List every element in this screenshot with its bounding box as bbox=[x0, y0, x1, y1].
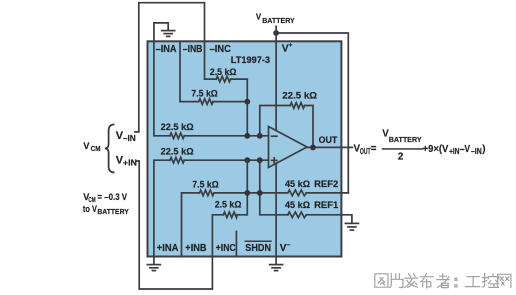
wire plus node to ref2 col1 bbox=[237, 160, 247, 215]
resistor 22.5k bottom bbox=[170, 157, 184, 163]
ground REF1 bbox=[345, 223, 358, 230]
pin -INC wire bbox=[205, 41, 217, 79]
ground top bbox=[162, 31, 175, 37]
junction dot ref2 row right bbox=[257, 190, 263, 196]
svg-text:–: – bbox=[287, 242, 291, 249]
junction dot ref2 row left bbox=[244, 190, 250, 196]
svg-text:2.5 kΩ: 2.5 kΩ bbox=[210, 67, 237, 78]
svg-text:LT1997-3: LT1997-3 bbox=[231, 54, 270, 65]
chip body LT1997-3 bbox=[148, 41, 342, 256]
svg-text:+IN: +IN bbox=[123, 159, 137, 168]
svg-text:22.5 kΩ: 22.5 kΩ bbox=[282, 91, 317, 102]
resistor 45k REF1 bbox=[288, 212, 307, 218]
svg-text:–IN: –IN bbox=[123, 134, 136, 143]
wire 7.5k top to node bbox=[213, 101, 247, 103]
junction dot OUT bbox=[310, 145, 316, 151]
node VBATTERY stub bbox=[275, 26, 277, 33]
svg-text:+IN: +IN bbox=[449, 147, 460, 156]
resistor 7.5k top bbox=[199, 99, 213, 105]
resistor 45k REF2 bbox=[288, 190, 307, 196]
svg-text:= –0.3 V: = –0.3 V bbox=[97, 192, 127, 202]
wire minus row bbox=[184, 135, 268, 137]
wire OUT bbox=[307, 146, 352, 148]
svg-text:7.5 kΩ: 7.5 kΩ bbox=[192, 180, 219, 191]
svg-text:BATTERY: BATTERY bbox=[389, 135, 422, 144]
junction dot 7.5k/2.5k bbox=[244, 99, 250, 105]
svg-text:BATTERY: BATTERY bbox=[262, 17, 295, 25]
pin +INB wire bbox=[182, 193, 200, 257]
svg-text:OUT: OUT bbox=[319, 135, 338, 145]
formula fraction bar bbox=[382, 148, 424, 150]
wire feedback left bbox=[260, 106, 290, 136]
op-amp minus sign bbox=[272, 135, 277, 137]
svg-text:–IN: –IN bbox=[471, 147, 482, 156]
svg-text:–INC: –INC bbox=[210, 44, 232, 55]
wire ref2 row bbox=[214, 192, 288, 194]
svg-text:SHDN: SHDN bbox=[245, 243, 271, 254]
junction dot VBATTERY bbox=[273, 30, 279, 36]
wire VBATTERY to outer right bbox=[276, 33, 348, 193]
wire V- supply to ground bbox=[275, 163, 277, 264]
svg-text:BATTERY: BATTERY bbox=[97, 209, 129, 216]
wire plus node to ref1 col2 bbox=[260, 160, 288, 215]
svg-text:22.5 kΩ: 22.5 kΩ bbox=[161, 122, 194, 133]
svg-text:+INB: +INB bbox=[185, 243, 206, 254]
junction dot minus row left bbox=[244, 133, 250, 139]
wire feedback right to OUT bbox=[305, 106, 313, 148]
svg-text:45 kΩ: 45 kΩ bbox=[285, 200, 310, 211]
svg-text:7.5 kΩ: 7.5 kΩ bbox=[191, 89, 218, 100]
resistor 22.5k top bbox=[170, 133, 184, 139]
wire 2.5k top to node bbox=[231, 79, 248, 136]
svg-text:REF1: REF1 bbox=[314, 200, 339, 211]
wire V-IN top loop bbox=[135, 3, 205, 132]
pin -INB wire bbox=[180, 41, 199, 101]
svg-text:2: 2 bbox=[398, 151, 404, 162]
junction dot minus row right bbox=[257, 133, 263, 139]
wire V+IN bottom loop bbox=[137, 161, 212, 289]
ground bottom center bbox=[270, 265, 283, 271]
wire REF2 exit bbox=[306, 192, 348, 194]
junction dot plus row right bbox=[257, 157, 263, 163]
svg-text:REF2: REF2 bbox=[314, 179, 338, 190]
svg-text:2.5 kΩ: 2.5 kΩ bbox=[215, 199, 242, 210]
svg-text:+INA: +INA bbox=[157, 243, 179, 254]
svg-text:+: + bbox=[289, 42, 293, 49]
pin +INC wire bbox=[212, 215, 223, 257]
op-amp U1 bbox=[269, 127, 308, 168]
svg-text:): ) bbox=[482, 144, 485, 155]
wire -INA to top ground bbox=[154, 23, 168, 41]
resistor 7.5k bottom bbox=[200, 190, 214, 196]
pin +INA wire bbox=[154, 160, 170, 256]
pin -INA wire bbox=[154, 41, 170, 136]
wire plus row bbox=[184, 159, 268, 161]
svg-text:=: = bbox=[371, 144, 377, 155]
watermark 图片发布者：工控网 bbox=[375, 274, 511, 288]
ground bottom left bbox=[147, 265, 160, 271]
svg-text:+9×(V: +9×(V bbox=[423, 144, 449, 155]
svg-text:OUT: OUT bbox=[360, 147, 371, 156]
svg-text:V: V bbox=[83, 140, 90, 151]
op-amp plus sign bbox=[272, 158, 277, 163]
junction dot plus row left bbox=[244, 157, 250, 163]
wire REF1 exit to ground bbox=[306, 215, 352, 223]
wire +INA ground stem bbox=[153, 257, 155, 265]
svg-text:45 kΩ: 45 kΩ bbox=[285, 179, 310, 190]
wire V+ supply bbox=[275, 33, 277, 131]
resistor 2.5k bottom bbox=[223, 212, 237, 218]
svg-text:CM: CM bbox=[91, 144, 101, 153]
svg-text:V: V bbox=[256, 12, 262, 21]
svg-text:to V: to V bbox=[83, 204, 97, 215]
svg-text:–V: –V bbox=[460, 144, 471, 155]
pin separator SHDN tick bbox=[235, 232, 237, 257]
resistor 22.5k feedback bbox=[290, 103, 304, 109]
svg-text:22.5 kΩ: 22.5 kΩ bbox=[161, 147, 194, 158]
svg-text:+INC: +INC bbox=[216, 243, 236, 254]
brace bbox=[105, 124, 115, 172]
svg-text:–INA: –INA bbox=[156, 44, 178, 55]
svg-text:–INB: –INB bbox=[183, 44, 203, 55]
resistor 2.5k top bbox=[216, 76, 230, 82]
